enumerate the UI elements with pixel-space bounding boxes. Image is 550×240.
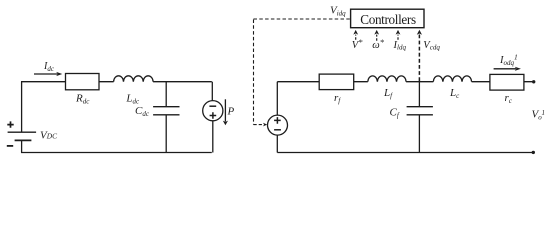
svg-text:Rdc: Rdc — [75, 93, 90, 106]
svg-text:Lf: Lf — [383, 87, 393, 100]
svg-text:Vcdq: Vcdq — [423, 40, 440, 52]
svg-text:Vo1: Vo1 — [532, 108, 546, 121]
svg-text:Ldc: Ldc — [125, 93, 140, 106]
svg-text:VDC: VDC — [40, 129, 57, 141]
svg-text:rf: rf — [334, 92, 341, 105]
svg-text:Vidq: Vidq — [330, 4, 346, 17]
svg-text:Cdc: Cdc — [135, 105, 150, 118]
svg-text:Iodq1: Iodq1 — [499, 53, 518, 67]
svg-text:V*: V* — [352, 37, 363, 51]
svg-text:Lc: Lc — [449, 87, 460, 100]
svg-text:rc: rc — [505, 92, 513, 105]
svg-text:ω*: ω* — [372, 37, 384, 51]
svg-text:Controllers: Controllers — [360, 12, 416, 27]
svg-text:Idc: Idc — [43, 61, 55, 73]
svg-text:Ildq: Ildq — [393, 40, 407, 52]
svg-text:P: P — [227, 106, 235, 118]
svg-text:Cf: Cf — [390, 106, 400, 119]
